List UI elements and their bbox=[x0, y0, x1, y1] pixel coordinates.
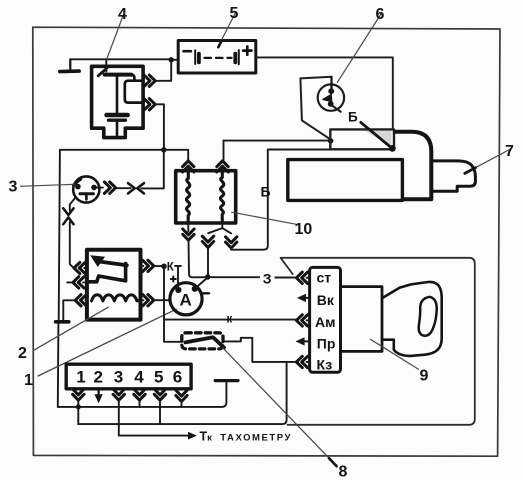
magneto breaker housing (pentagon) bbox=[300, 77, 331, 140]
svg-text:Ам: Ам bbox=[315, 314, 335, 330]
leader line for 4 bbox=[107, 15, 124, 60]
pin: block pin 3 connector bbox=[113, 389, 124, 400]
coil 10 secondary winding bbox=[220, 171, 223, 223]
magneto terminal block (small box) shading bbox=[365, 131, 392, 147]
wire: circle 3 right terminal to connector bbox=[116, 187, 131, 189]
pin: circle 3 output connector bbox=[104, 182, 115, 193]
svg-text:К: К bbox=[167, 262, 175, 274]
wire: pin 1 drop through bus 1 to bus 2 bbox=[77, 400, 79, 424]
capacitor C inside unit 4 bbox=[107, 115, 128, 120]
relay 2 winding bbox=[92, 295, 140, 301]
contact bar inside unit 4 bbox=[105, 73, 132, 77]
switch 3 base bar bbox=[80, 192, 93, 195]
wire: B lead diagonal into terminal bbox=[361, 122, 393, 148]
pin: coil 10 top right connector bbox=[217, 161, 228, 172]
battery cell plates left bbox=[195, 50, 199, 64]
svg-text:6: 6 bbox=[173, 368, 182, 387]
svg-text:1: 1 bbox=[24, 372, 33, 389]
node: B terminal junction bbox=[389, 145, 396, 152]
breaker-condenser unit 4 outline bbox=[92, 66, 144, 137]
coil 10 primary winding bbox=[186, 171, 189, 223]
key of switch 9 bbox=[382, 282, 442, 356]
leader line for 9 bbox=[370, 339, 418, 369]
wire: battery positive to magneto B terminal bbox=[256, 57, 393, 129]
wire: left riser down to ground bar bbox=[59, 150, 60, 320]
node: Z wire junction bbox=[205, 274, 210, 279]
pin: relay 2 right top connector bbox=[143, 260, 154, 271]
wire: junction to battery negative terminal bbox=[171, 59, 178, 61]
wire: circle 3 bottom down to relay 2 input bbox=[70, 198, 75, 268]
svg-text:9: 9 bbox=[420, 368, 429, 385]
node: battery negative junction bbox=[169, 57, 174, 62]
svg-text:10: 10 bbox=[295, 221, 313, 238]
wire: coil bottom center split bbox=[208, 223, 231, 233]
node: bus junction above circle 3 branch bbox=[161, 147, 166, 152]
wire: K junction down to fuse level bbox=[164, 266, 182, 342]
wire: bus corner down to coil top left bbox=[187, 150, 189, 171]
svg-text:Пр: Пр bbox=[317, 335, 336, 351]
contact lever inside unit 4 bbox=[98, 68, 107, 76]
wire: capacitor to bottom tab of unit 4 bbox=[116, 122, 119, 136]
switch 3 right contact dot bbox=[91, 185, 97, 191]
wire: ground bus (bus 1) bbox=[58, 382, 227, 407]
leader line for 7 bbox=[465, 149, 511, 173]
magneto body box bbox=[288, 160, 403, 201]
wire: B wire from magneto down to coil bottom tap right bbox=[231, 150, 330, 250]
node: pin 1 on ground bus bbox=[76, 404, 81, 409]
ammeter 1 body bbox=[170, 283, 202, 315]
svg-text:к: к bbox=[227, 314, 233, 326]
wire: junction down to breaker 4 upper output bbox=[156, 60, 172, 81]
ammeter minus terminal dot bbox=[192, 286, 198, 292]
leader line for 3 bbox=[21, 184, 75, 186]
svg-text:Б: Б bbox=[348, 110, 358, 125]
wire: coil bottom left stub bbox=[187, 223, 189, 231]
wire: k wire from riser to ignition switch Am bbox=[164, 319, 296, 321]
battery internal dashed link bbox=[205, 57, 232, 59]
svg-text:2: 2 bbox=[94, 368, 103, 387]
wire: entry stub into unit 4 bbox=[105, 59, 107, 71]
svg-text:7: 7 bbox=[505, 143, 514, 160]
svg-text:Вк: Вк bbox=[317, 292, 335, 308]
svg-text:Тк ТАХОМЕТРУ: Тк ТАХОМЕТРУ bbox=[200, 430, 292, 444]
pin: Am connector bbox=[296, 315, 309, 326]
high tension boot (bent cap) bbox=[395, 132, 431, 200]
wire: magneto feed down to coil top right bbox=[223, 141, 224, 171]
pin: relay 2 right bottom connector bbox=[143, 295, 154, 306]
wire: riser from Kz wire down to bottom bus bbox=[282, 362, 286, 424]
switch 3 (circle) body bbox=[73, 176, 99, 202]
leader line for 8 bbox=[223, 348, 337, 466]
spark plug 7 body bbox=[433, 161, 475, 191]
pin: unit 4 lower right connector bbox=[144, 99, 155, 110]
pin: block pin 1 connector bbox=[73, 389, 84, 400]
svg-text:2: 2 bbox=[18, 345, 27, 362]
label plus near ammeter bbox=[171, 277, 176, 282]
breaker 6 lower contact dot bbox=[328, 101, 334, 107]
svg-text:4: 4 bbox=[118, 6, 127, 23]
svg-text:А: А bbox=[180, 291, 192, 310]
wire: relay 2 right top stub bbox=[141, 265, 165, 267]
border frame of diagram bbox=[33, 27, 500, 456]
fuse 8 box (dashed) bbox=[182, 333, 223, 349]
magneto terminal block (small box) bbox=[330, 129, 394, 149]
wire: ground to breaker 4 top and battery junction bbox=[70, 58, 171, 60]
breaker 6 circle bbox=[318, 84, 344, 110]
tachometer arrow head bbox=[188, 432, 197, 440]
pin: relay 2 left top connector bbox=[74, 262, 85, 273]
pin: relay 2 left middle connector bbox=[73, 277, 84, 288]
pin: coil 10 bottom left connector bbox=[183, 229, 194, 240]
svg-text:6: 6 bbox=[376, 6, 385, 23]
wire: relay 2 left bottom to ground riser bbox=[63, 300, 87, 320]
wire: relay 2 left top stub bbox=[84, 267, 87, 269]
pin: block pin 6 connector bbox=[176, 390, 187, 401]
pin: coil 10 bottom tap connector left bbox=[202, 236, 213, 247]
wire: bus node down to circle 3 output (right side) bbox=[141, 150, 164, 189]
wire: bus 2 to Kz riser bbox=[78, 423, 282, 425]
label: battery plus bbox=[243, 47, 251, 55]
relay 2 contact arm 2 bbox=[88, 276, 126, 282]
connector pair on circle 3 bottom wire bbox=[63, 208, 73, 224]
wire: relay 2 right bottom to ammeter bbox=[141, 299, 171, 301]
pin: st connector bbox=[296, 272, 309, 283]
switch 3 left contact dot bbox=[75, 184, 81, 190]
pin: relay 2 left bottom connector bbox=[75, 295, 86, 306]
breaker 6 output tick toward B bbox=[332, 106, 341, 112]
coil loop inside unit 4 bbox=[125, 75, 144, 103]
wire: main bus from left riser to coil 10 (horizontal) bbox=[60, 149, 188, 151]
label: battery minus bbox=[184, 50, 191, 53]
ammeter plus terminal dot bbox=[175, 287, 181, 293]
wire: pin 4 drop to bus 1 bbox=[139, 400, 141, 407]
relay 2 box bbox=[87, 250, 141, 320]
switch 3 lever bbox=[73, 179, 81, 185]
pin: block pin 4 connector bbox=[134, 389, 145, 400]
wire: Z node to ammeter minus bbox=[196, 278, 208, 288]
switch 3 base stem bbox=[85, 194, 88, 200]
svg-text:3: 3 bbox=[9, 179, 18, 196]
wire: circle 3 to its output connector bbox=[96, 187, 103, 189]
pin: coil 10 bottom tap connector right bbox=[226, 237, 237, 248]
pin: Vk arrow bbox=[297, 294, 310, 302]
wire: ammeter plus stub upward bbox=[175, 266, 181, 287]
svg-text:Кз: Кз bbox=[317, 357, 333, 373]
svg-text:З: З bbox=[263, 270, 272, 286]
wire: relay 2 left middle stub bbox=[67, 281, 87, 283]
pin: block pin 5 connector bbox=[154, 389, 165, 400]
pin: unit 4 upper right connector bbox=[144, 75, 155, 86]
svg-text:4: 4 bbox=[134, 368, 144, 387]
ignition switch enclosure bbox=[281, 258, 475, 425]
connector pair on circle 3 right wire bbox=[128, 183, 144, 193]
battery cell plates right bbox=[235, 50, 239, 64]
pin: block pin 2 arrow bbox=[94, 390, 102, 403]
pin: Pr arrow bbox=[296, 337, 310, 345]
relay 2 contact link bbox=[124, 264, 128, 281]
wire: pin 6 drop to bus 1 bbox=[181, 400, 183, 407]
svg-text:5: 5 bbox=[230, 5, 239, 22]
wire: ground bar down to bottom bus bbox=[57, 324, 60, 407]
wire: bottom tap left down to Z node bbox=[207, 248, 209, 277]
svg-text:5: 5 bbox=[154, 368, 163, 387]
breaker 6 top contact stub bbox=[330, 77, 332, 89]
leader line for 6 bbox=[337, 14, 381, 82]
breaker 6 lever wedge bbox=[323, 95, 332, 102]
leader line for 10 bbox=[232, 212, 297, 224]
ignition coil 10 box bbox=[176, 171, 236, 223]
key hole (grip slot) bbox=[419, 297, 437, 336]
node: K junction bbox=[161, 264, 167, 270]
leader line for 5 bbox=[218, 13, 235, 48]
svg-text:8: 8 bbox=[339, 464, 348, 480]
ignition switch terminal box 9 bbox=[310, 267, 341, 372]
svg-text:3: 3 bbox=[114, 368, 123, 387]
relay 2 contact arm 1 (arrow) bbox=[90, 255, 127, 267]
wire: center conductor of unit 4 bbox=[116, 75, 119, 113]
fuse 8 element bbox=[185, 337, 224, 347]
pin: coil 10 top left connector bbox=[183, 161, 194, 172]
wire: pin 5 drop to bus 2 bbox=[159, 400, 161, 424]
node: coil feed junction on magneto block bbox=[328, 138, 334, 144]
svg-text:1: 1 bbox=[76, 368, 85, 387]
battery 5 box bbox=[178, 41, 256, 74]
wire: coil bottom left connector down to Z wire corner bbox=[189, 241, 208, 278]
ground (bottom T symbol) bbox=[215, 379, 238, 382]
connector block (pins 1-6) box bbox=[66, 364, 191, 389]
breaker 6 top contact dot bbox=[328, 88, 334, 94]
wire: pin 3 drop to tachometer line bbox=[119, 400, 189, 435]
svg-text:ст: ст bbox=[317, 269, 332, 285]
leader line for 2 bbox=[33, 307, 108, 351]
lock cylinder of switch 9 bbox=[341, 287, 383, 352]
wire: fuse to step to Kz terminal bbox=[223, 338, 296, 362]
ground (top-left chassis ground) bbox=[60, 59, 79, 71]
wire: magneto terminal block to coil feed bbox=[224, 140, 331, 142]
wire: unit 4 lower output down to bus node bbox=[156, 104, 164, 150]
pin: Kz connector bbox=[296, 356, 309, 367]
ground bar on left riser bbox=[56, 320, 69, 324]
leader line for 1 bbox=[38, 309, 176, 376]
label minus near ammeter bbox=[203, 292, 209, 294]
svg-text:Б: Б bbox=[261, 184, 271, 200]
wire: Z wire to ignition switch st bbox=[211, 276, 296, 278]
